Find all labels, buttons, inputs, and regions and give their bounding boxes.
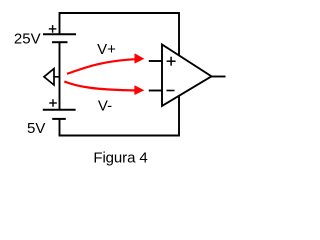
svg-text:V+: V+ [97,41,116,58]
svg-text:Figura 4: Figura 4 [93,150,147,167]
wire V- supply rise to op-amp bottom edge [178,96,180,137]
node marker triangle (common point) [44,69,54,85]
annotation arrow V+ (red) [67,53,144,74]
battery B2 5V negative plate [52,118,66,120]
op-amp inverting input lead [149,90,162,92]
svg-text:V-: V- [98,97,112,114]
wire top rail [60,13,180,34]
wire bottom rail [60,119,180,136]
svg-text:25V: 25V [14,30,41,47]
svg-text:5V: 5V [27,120,45,137]
op-amp noninverting input lead [149,60,162,62]
wire between batteries [59,42,61,110]
battery B1 25V negative plate [52,41,68,43]
op-amp plus input mark [167,57,176,66]
battery B1 25V positive plate [43,33,76,35]
battery B2 5V positive plate [43,109,76,111]
annotation arrow V- (red) [64,82,144,96]
battery B1 plus polarity mark [49,25,57,33]
wire V+ supply drop to op-amp top edge [178,12,180,55]
op-amp U1 triangle [162,45,212,107]
op-amp output lead [212,76,226,78]
battery B2 plus polarity mark [49,99,57,107]
op-amp minus input mark [167,90,175,92]
wire node stub [54,76,60,78]
